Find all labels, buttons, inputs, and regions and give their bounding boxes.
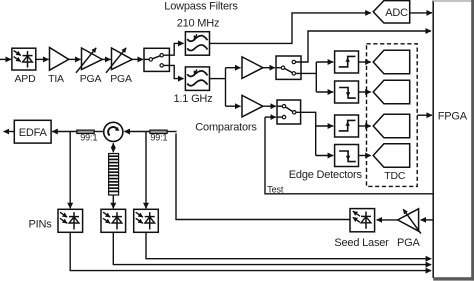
wire EDFA output left	[4, 131, 15, 133]
wire PIN2 to FPGA	[113, 232, 431, 264]
amplifier PGA2	[106, 48, 132, 73]
wire F1 to ADC	[210, 13, 371, 44]
wire S1 to filter 210MHz	[163, 43, 183, 55]
comparator U1	[242, 57, 263, 79]
switch S1	[144, 48, 169, 71]
wire APD to TIA	[36, 58, 49, 60]
edge detector ED1 (rising)	[335, 51, 359, 73]
svg-text:210 MHz: 210 MHz	[177, 18, 220, 30]
amplifier PGA3 (leftward)	[398, 209, 421, 234]
TDC channel 2 pentagon	[373, 80, 410, 103]
svg-text:PGA: PGA	[110, 73, 132, 85]
wire S3 to edge detectors 3,4	[296, 112, 316, 155]
svg-text:PINs: PINs	[28, 218, 52, 230]
wire S1 to filter 1.1GHz	[163, 65, 183, 78]
svg-text:1.1 GHz: 1.1 GHz	[174, 93, 213, 105]
svg-text:APD: APD	[15, 73, 37, 85]
switch S3	[277, 100, 301, 124]
svg-text:Test: Test	[267, 184, 284, 194]
Seed Laser diode	[350, 209, 375, 232]
svg-text:Edge Detectors: Edge Detectors	[289, 169, 363, 181]
svg-text:Comparators: Comparators	[195, 122, 257, 134]
wire FPGA to PGA3	[421, 219, 434, 221]
TDC channel 4 pentagon	[373, 144, 410, 167]
amplifier PGA1	[76, 48, 102, 73]
svg-text:ADC: ADC	[385, 7, 408, 19]
lowpass filter F1 210MHz	[185, 32, 209, 56]
wire bus drop to PIN3	[145, 132, 147, 209]
wire U2 to switch S3	[263, 105, 276, 107]
svg-text:Seed Laser: Seed Laser	[334, 237, 389, 249]
wire PGA3 to Seed Laser	[377, 219, 398, 221]
ADC pentagon	[373, 1, 410, 23]
edge detector ED4 (falling)	[335, 145, 359, 167]
svg-text:PGA: PGA	[80, 73, 102, 85]
wire bus drop to PIN1	[69, 132, 71, 209]
lowpass filter F2 1.1GHz	[185, 67, 209, 91]
edge detector ED3 (rising)	[335, 115, 359, 137]
TDC channel 1 pentagon	[373, 50, 410, 73]
wire Test from FPGA	[265, 117, 433, 194]
wire input to APD	[0, 58, 11, 60]
wire Seed Laser to bus	[176, 133, 350, 219]
svg-text:TIA: TIA	[48, 73, 64, 85]
EDFA box	[14, 120, 51, 143]
TDC channel 3 pentagon	[373, 114, 410, 137]
wire S2 upper to FPGA	[296, 31, 432, 62]
wire coupler2 to seed line corner	[167, 131, 177, 133]
wire grating to PIN2	[112, 195, 114, 208]
wire TIA to PGA1	[69, 58, 81, 60]
fiber grating	[109, 154, 119, 196]
svg-text:PGA: PGA	[397, 237, 420, 249]
wire F2 to comparators tee	[210, 78, 226, 80]
APD photodiode	[12, 48, 36, 70]
wire U1 to switch S2	[263, 67, 275, 69]
wire PGA2 to switch S1	[132, 58, 143, 60]
svg-text:99:1: 99:1	[80, 132, 97, 142]
coupler 99:1 left	[77, 130, 94, 133]
FPGA box	[433, 0, 474, 281]
svg-text:EDFA: EDFA	[19, 127, 48, 139]
svg-text:TDC: TDC	[384, 170, 406, 182]
svg-text:99:1: 99:1	[150, 132, 167, 142]
TDC dashed box	[367, 44, 418, 187]
comparator U2	[242, 95, 263, 117]
wire coupler1 to circulator	[94, 131, 104, 133]
wire PGA1 to PGA2	[102, 58, 110, 60]
wire S2 lower to edge detectors 1,2	[296, 72, 317, 74]
edge detector ED2 (falling)	[335, 81, 359, 103]
wire ED2 to TDC	[359, 91, 371, 93]
wire ED1 to TDC	[359, 61, 371, 63]
wire PIN1 to FPGA	[70, 232, 431, 270]
wire circulator to grating (bidirectional)	[112, 143, 114, 148]
PIN photodiode 1	[58, 209, 83, 232]
wire ED3 to TDC	[359, 125, 371, 127]
op-amp TIA	[50, 48, 69, 71]
wire ADC to FPGA	[410, 12, 432, 14]
wire test into S3	[265, 116, 276, 118]
wire ED4 to TDC	[359, 155, 371, 157]
wire TDC to FPGA	[417, 114, 432, 116]
wire coupler2 to circulator	[124, 131, 149, 133]
circulator	[104, 122, 123, 141]
svg-text:FPGA: FPGA	[438, 111, 468, 123]
PIN photodiode 2	[101, 209, 126, 232]
switch S2	[276, 56, 301, 79]
PIN photodiode 3	[134, 209, 159, 232]
wire bus into EDFA	[52, 131, 77, 133]
svg-text:Lowpass Filters: Lowpass Filters	[164, 1, 238, 13]
coupler 99:1 right	[150, 130, 167, 133]
wire PIN3 to FPGA	[146, 232, 431, 258]
